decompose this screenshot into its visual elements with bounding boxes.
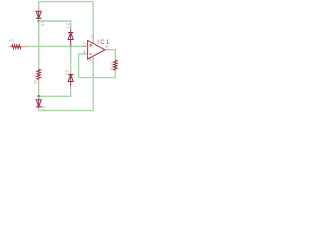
pin 2 (-IN)	[83, 53, 87, 55]
diode D2	[68, 26, 73, 46]
node C junction dot	[37, 95, 40, 98]
wire output to R3	[111, 50, 116, 58]
pin 4 (V-)	[92, 56, 94, 63]
wire pin4 down	[92, 62, 94, 110]
resistor R3	[114, 57, 118, 73]
wire R2 to node C	[38, 85, 40, 97]
wire main horizontal net to pin 3	[27, 45, 84, 47]
wire left column vertical (D1 node to R2)	[38, 21, 40, 66]
svg-text:1k: 1k	[110, 62, 114, 66]
svg-text:ZD: ZD	[41, 23, 45, 27]
pin 6 (OUT)	[105, 49, 111, 51]
resistor R1	[9, 45, 27, 49]
svg-text:1k: 1k	[34, 74, 38, 78]
svg-text:R1: R1	[9, 38, 15, 43]
wire top rail V+	[39, 1, 93, 3]
svg-text:IC1: IC1	[97, 39, 110, 46]
wire node B down to D4	[70, 46, 72, 71]
svg-text:ZD: ZD	[65, 72, 69, 76]
diode D4	[68, 71, 73, 90]
pin 3 (+IN)	[83, 45, 87, 47]
wire IN- net	[79, 54, 116, 78]
diode D3	[36, 96, 41, 110]
svg-text:R2: R2	[34, 80, 38, 84]
wire R3 bottom to feedback	[114, 73, 116, 78]
node A junction dot	[37, 20, 40, 23]
svg-text:ZD: ZD	[66, 26, 70, 30]
node B junction dot	[69, 45, 72, 48]
wire bottom rail	[39, 110, 93, 112]
wire top-right drop to pin 7	[92, 2, 94, 34]
diode D1	[36, 6, 41, 20]
resistor R2	[37, 67, 41, 85]
wire top-left drop to D1	[38, 2, 40, 7]
wire node A to D2 (L shape)	[39, 21, 71, 26]
op-amp IC1	[88, 40, 105, 59]
pin 7 (V+)	[92, 33, 94, 43]
wire D4 to node C	[39, 90, 71, 97]
